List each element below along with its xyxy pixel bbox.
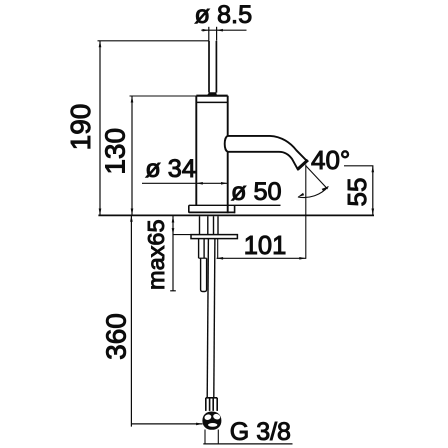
arrow 130 top: [131, 96, 134, 103]
hose lower segment: [201, 258, 207, 291]
faucet stem walls: [209, 41, 216, 93]
arrow ø8.5 left: [203, 29, 209, 32]
flange top line with ø50 leader: [189, 204, 281, 206]
svg-text:190: 190: [65, 104, 96, 151]
svg-text:ø 8.5: ø 8.5: [195, 1, 253, 29]
arrow 130 bottom: [131, 209, 134, 216]
mounting surface line: [98, 214, 374, 216]
arrow 360 top: [130, 215, 133, 222]
arrow ø8.5 right: [217, 29, 223, 32]
svg-text:55: 55: [342, 178, 372, 207]
spout body: [225, 136, 307, 169]
arrow 190 top: [99, 41, 102, 48]
extension line 101 left: [217, 239, 219, 259]
nut facet bottom: [208, 423, 217, 427]
nut facet left: [204, 414, 212, 421]
connector ball nut: [202, 412, 221, 430]
svg-text:40°: 40°: [311, 145, 350, 175]
svg-text:ø 34: ø 34: [145, 155, 196, 183]
extension line 130 top: [130, 95, 197, 97]
flange left edge: [188, 205, 190, 212]
dimension line 101: [217, 257, 306, 259]
body right wall upper: [227, 96, 229, 136]
extension line nut top: [173, 234, 191, 236]
outlet axis 40deg line: [306, 166, 328, 189]
dimension line max65: [172, 216, 174, 291]
spout outlet face: [297, 160, 308, 170]
arrow 101 right: [299, 257, 306, 260]
max65 bottom tick: [170, 290, 176, 292]
arrow ø34 left: [196, 182, 203, 185]
dimension line ø34: [142, 182, 228, 184]
shank walls above nut: [200, 216, 219, 234]
svg-text:ø 50: ø 50: [231, 178, 282, 206]
dimension line ø8.5: [201, 27, 246, 41]
hose step: [199, 257, 207, 259]
dimension line 130: [131, 96, 133, 215]
angle arc 40deg: [298, 186, 329, 197]
supply pipe left wall: [207, 239, 208, 398]
extension lines G3/8: [205, 430, 218, 444]
extension line 190 top: [98, 40, 210, 42]
arrow ø34 right: [221, 182, 228, 185]
dimension line G3/8: [203, 443, 292, 445]
supply pipe right wall: [214, 239, 215, 398]
body cap joint: [196, 101, 227, 103]
body cap top: [196, 95, 227, 97]
svg-text:G 3/8: G 3/8: [230, 418, 291, 446]
nut facet right: [212, 413, 221, 420]
arrow arc left end: [298, 193, 304, 197]
arrow arc right end: [322, 186, 329, 191]
arrow 360 right: [196, 423, 203, 426]
svg-text:360: 360: [100, 313, 131, 360]
arrow 190 bottom: [99, 209, 102, 216]
body right wall lower: [227, 152, 229, 213]
mounting nut: [191, 235, 237, 239]
dimension line 360 horizontal: [131, 423, 202, 425]
dimension line 190: [99, 41, 101, 215]
arrow max65 nut: [172, 228, 175, 235]
hose upper segment: [199, 239, 205, 259]
svg-text:101: 101: [244, 232, 287, 260]
flange bottom: [189, 211, 235, 213]
arrow 55 top: [372, 166, 375, 173]
extension line 55 top: [344, 165, 373, 167]
arrow 55 bottom: [372, 209, 375, 216]
extension line from tip down: [305, 165, 307, 259]
svg-text:max65: max65: [143, 219, 169, 290]
body left wall: [195, 96, 197, 206]
svg-text:130: 130: [100, 128, 131, 175]
arrow max65 top: [172, 216, 175, 223]
dimension line 360 vertical: [130, 215, 132, 426]
flange right edge: [234, 205, 236, 213]
dimension line 55: [372, 166, 374, 215]
arrow 101 left: [217, 257, 224, 260]
stem flare: [207, 92, 217, 96]
pipe end fitting: [206, 398, 217, 411]
